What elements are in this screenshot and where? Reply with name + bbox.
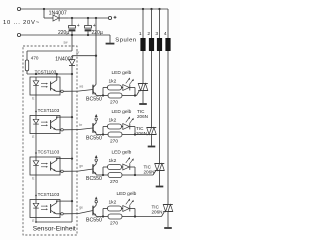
resistor R2b 270 — [103, 134, 108, 136]
svg-text:Spulen: Spulen — [115, 38, 136, 44]
triac T3 TIC206 — [155, 163, 165, 165]
resistor R3a 1k2 — [103, 166, 108, 168]
resistor R4a 1k2 — [103, 208, 108, 210]
svg-text:270: 270 — [110, 179, 118, 185]
svg-text:BC550: BC550 — [86, 218, 102, 224]
wire Q1 emitter to node — [96, 95, 103, 97]
wire LED feed rail — [27, 73, 72, 75]
svg-text:220µ: 220µ — [58, 30, 69, 36]
wire opto4 emitter to Q4 base — [63, 213, 78, 215]
terminal +DC output — [108, 16, 111, 19]
svg-text:+: + — [93, 23, 96, 29]
node network right 3 — [134, 167, 136, 175]
svg-text:BC550: BC550 — [86, 97, 102, 103]
coil L4 — [165, 38, 170, 51]
wire opto1 emitter to Q1 base — [63, 90, 78, 92]
wire opto3 emitter to Q3 base — [63, 170, 78, 172]
wire +DC rail — [68, 17, 108, 19]
svg-text:LED gelb: LED gelb — [112, 150, 132, 156]
resistor R1b 270 — [103, 95, 108, 97]
node D2 anode on collector rail — [95, 55, 97, 57]
wire LED chain 3 — [35, 175, 37, 200]
chain pin mark 4 — [35, 195, 37, 197]
svg-text:BC550: BC550 — [86, 136, 102, 142]
node top rail to D1 branch — [43, 8, 45, 10]
opto4 emitter pin — [56, 213, 61, 215]
svg-text:10 ... 20V~: 10 ... 20V~ — [3, 20, 40, 26]
svg-text:1N4007: 1N4007 — [49, 11, 67, 17]
coil L1 — [140, 38, 145, 51]
wire coil 2 to triac — [151, 51, 153, 128]
svg-text:4: 4 — [164, 31, 167, 37]
ground T2 — [151, 135, 153, 146]
LED D4 yellow — [123, 206, 130, 212]
capacitor C2 220u — [87, 18, 89, 26]
node opto1 anode pin — [35, 73, 37, 75]
wire coil 3 top — [159, 9, 161, 38]
LED D2 yellow — [123, 124, 130, 130]
wire coil 1 top — [142, 9, 144, 38]
svg-text:gn: gn — [79, 164, 83, 168]
opto2 collector tap wire — [56, 117, 58, 119]
node C2 bottom — [87, 34, 89, 36]
chain pin mark 3 — [35, 152, 37, 154]
wire bottom AC rail — [21, 34, 110, 36]
node collector tap 4 — [71, 200, 73, 202]
transistor Q2 BC550 — [92, 123, 94, 133]
svg-text:1k2: 1k2 — [109, 200, 117, 206]
wire gate T2 — [135, 134, 145, 136]
svg-text:Sensor-Einheit: Sensor-Einheit — [33, 225, 76, 232]
svg-text:LED gelb: LED gelb — [117, 191, 137, 197]
opto-interrupter U2 TCST1103 — [30, 116, 60, 134]
resistor R1 470 — [25, 60, 28, 71]
svg-text:LED gelb: LED gelb — [112, 70, 132, 76]
node network left 4 — [102, 215, 104, 217]
node network right 2 — [134, 127, 136, 135]
svg-text:E: E — [32, 96, 34, 100]
resistor R2a 1k2 — [103, 126, 108, 128]
svg-text:206N: 206N — [152, 209, 163, 214]
node coil 2 on top rail — [150, 8, 152, 10]
ground (main) — [109, 35, 111, 43]
svg-text:E: E — [32, 176, 34, 180]
opto collector rail — [71, 74, 73, 222]
plus polarity mark — [114, 16, 117, 18]
svg-text:+: + — [77, 23, 80, 29]
wire AC rail to R1 — [71, 35, 73, 51]
diode D1 1N4007 — [43, 9, 45, 18]
node D2 cathode — [71, 73, 73, 75]
ground T3 — [159, 171, 161, 186]
wire LED chain 2 — [35, 134, 37, 158]
transistor Q3 BC550 — [92, 164, 94, 174]
wire opto2 emitter to Q2 base — [63, 129, 78, 131]
node network left 3 — [102, 174, 104, 176]
transistor Q1 BC550 — [92, 85, 94, 95]
svg-text:270: 270 — [110, 100, 118, 106]
wire gate T1 — [135, 95, 137, 97]
node coil 3 on top rail — [158, 8, 160, 10]
svg-text:TCST1103: TCST1103 — [38, 149, 60, 154]
ground T4 — [167, 212, 169, 228]
svg-text:1k2: 1k2 — [109, 79, 117, 85]
opto1 emitter pin — [56, 90, 61, 92]
triac T4 TIC206 — [163, 204, 173, 206]
svg-text:1: 1 — [139, 31, 142, 37]
opto-interrupter U4 TCST1103 — [30, 200, 60, 218]
opto3 collector tap wire — [56, 159, 58, 161]
wire coil 1 to triac — [142, 51, 144, 84]
node coil 1 on top rail — [142, 8, 144, 10]
transistor Q4 BC550 — [92, 206, 94, 216]
node collector tap 2 — [71, 116, 73, 118]
opto-interrupter U1 TCST1103 — [30, 77, 60, 95]
svg-text:470: 470 — [31, 55, 39, 60]
node network right 1 — [134, 88, 136, 96]
node C1 top — [71, 17, 73, 19]
wire coil 2 top — [151, 9, 153, 38]
capacitor C1 220u — [71, 18, 73, 26]
supply arrow Q2 collector — [95, 120, 97, 122]
wire coil 4 top — [167, 9, 169, 38]
svg-text:206N: 206N — [137, 114, 148, 119]
svg-text:206N: 206N — [136, 131, 147, 136]
node collector tap 3 — [71, 157, 73, 159]
resistor R1a 1k2 — [103, 87, 108, 89]
node network right 4 — [134, 209, 136, 217]
coil L3 — [157, 38, 162, 51]
svg-text:1N4007: 1N4007 — [55, 56, 73, 62]
svg-text:ge: ge — [79, 206, 83, 210]
supply arrow Q4 collector — [95, 203, 97, 205]
svg-text:E: E — [32, 135, 34, 139]
triac T2 TIC206 — [147, 127, 157, 129]
resistor R3b 270 — [103, 174, 108, 176]
wire D2 anode — [72, 55, 96, 57]
node network left 2 — [102, 133, 104, 135]
svg-text:220µ: 220µ — [92, 30, 103, 36]
sensor unit dashed box — [23, 46, 77, 235]
node C1 bottom — [71, 34, 73, 36]
svg-text:BC550: BC550 — [86, 176, 102, 182]
wire LED chain 1 — [35, 95, 37, 116]
LED D3 yellow — [123, 164, 130, 170]
coil L2 — [149, 38, 154, 51]
svg-text:E: E — [32, 219, 34, 223]
wire coil 4 to triac — [167, 51, 169, 205]
svg-text:ws: ws — [79, 85, 83, 89]
node collector rail top — [95, 17, 97, 19]
svg-text:sw: sw — [64, 40, 69, 44]
input terminal J1 (upper) — [17, 7, 20, 10]
svg-text:270: 270 — [110, 221, 118, 227]
opto-interrupter U3 TCST1103 — [30, 157, 60, 175]
svg-text:1k2: 1k2 — [109, 118, 117, 124]
wire Q3 emitter to node — [96, 174, 103, 176]
svg-text:270: 270 — [110, 139, 118, 145]
collector supply rail — [95, 18, 97, 84]
node C2 top — [87, 17, 89, 19]
node opto1 collector pin — [56, 73, 58, 75]
node network left 1 — [102, 94, 104, 96]
svg-text:TCST1103: TCST1103 — [35, 69, 57, 74]
wire Q2 emitter to node — [96, 134, 103, 136]
wire gate T4 — [135, 216, 162, 218]
opto4 collector tap wire — [56, 201, 58, 203]
wire LED chain end — [35, 218, 37, 223]
svg-text:206N: 206N — [144, 169, 155, 174]
ground T1 — [142, 91, 144, 104]
svg-text:3: 3 — [155, 31, 158, 37]
svg-text:LED gelb: LED gelb — [112, 109, 132, 115]
svg-text:2: 2 — [147, 31, 150, 37]
wire Q4 emitter to node — [96, 216, 103, 218]
svg-text:TCST1103: TCST1103 — [38, 192, 60, 197]
opto3 emitter pin — [56, 170, 61, 172]
wire top AC rail — [21, 8, 168, 10]
chain pin mark 2 — [35, 111, 37, 113]
triac T1 TIC206 — [138, 83, 148, 85]
resistor R4b 270 — [103, 216, 108, 218]
input terminal J2 (lower) — [17, 33, 20, 36]
LED D1 yellow — [123, 85, 130, 91]
opto1 collector pin wire — [56, 74, 58, 80]
supply arrow Q3 collector — [95, 161, 97, 163]
svg-text:1k2: 1k2 — [109, 158, 117, 164]
diode D2 1N4007 — [71, 56, 73, 60]
opto2 emitter pin — [56, 129, 61, 131]
wire coil 3 to triac — [159, 51, 161, 164]
svg-text:TCST1103: TCST1103 — [38, 108, 60, 113]
wire gate T3 — [135, 174, 153, 176]
